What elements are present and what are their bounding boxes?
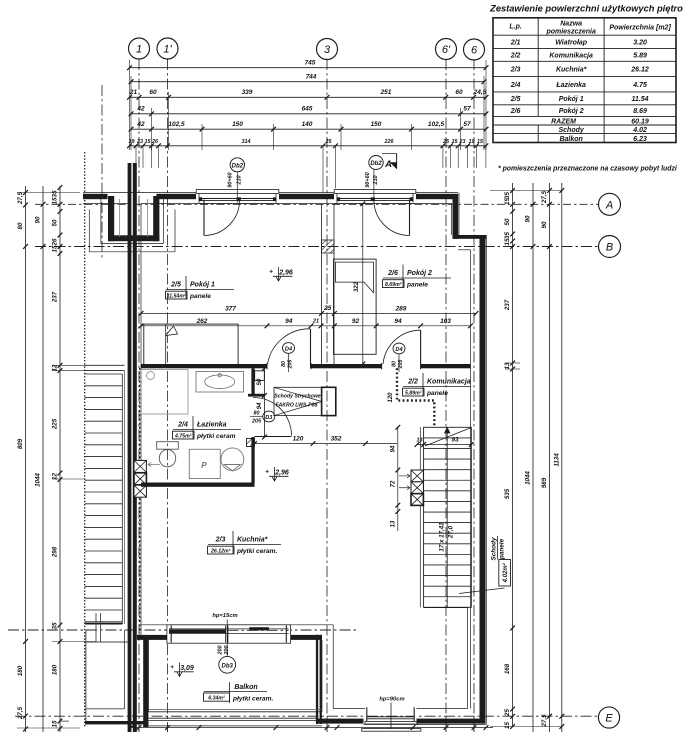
right dim chain total 1134 (553, 183, 564, 732)
svg-text:11.54m²: 11.54m² (167, 293, 186, 299)
svg-text:Łazienka: Łazienka (555, 82, 586, 89)
balcony door window Db3 (167, 624, 292, 644)
neighbour stair treads (85, 371, 125, 624)
label Schody rotated (459, 536, 511, 594)
party wall (128, 163, 137, 732)
svg-text:2/3: 2/3 (510, 67, 521, 74)
svg-text:237: 237 (504, 299, 511, 311)
svg-text:262: 262 (196, 318, 208, 325)
axis bubble 1 (129, 38, 150, 59)
axis bubble 3 (317, 39, 338, 60)
svg-text:A: A (605, 199, 613, 211)
svg-text:6: 6 (471, 44, 478, 56)
corridor wall (141, 363, 471, 380)
axis 6 line (473, 59, 475, 732)
svg-text:2,96: 2,96 (274, 470, 289, 477)
tag Db2 window2 with section A (365, 153, 396, 202)
stair void dotted edge (388, 368, 434, 427)
label Pokoj 1 (166, 276, 235, 300)
svg-text:Kuchnia*: Kuchnia* (556, 67, 587, 74)
divider hatch block (322, 240, 335, 253)
svg-text:2,96: 2,96 (278, 270, 293, 277)
svg-text:60: 60 (149, 89, 157, 96)
bottom window hp90 (362, 703, 421, 732)
right dim chain 27,5/90/989/27,5 (541, 183, 552, 732)
svg-text:panele: panele (406, 282, 428, 289)
dim chain row2 744 (129, 74, 487, 85)
neighbour outer wall dotted (84, 152, 86, 727)
svg-text:93: 93 (451, 437, 459, 444)
svg-text:35: 35 (504, 232, 511, 239)
axis A line (35, 203, 598, 205)
svg-text:102,5: 102,5 (168, 121, 185, 128)
dim chain row3 21/60/339/251/60/24,5 (127, 89, 488, 100)
right dim chain 90/1044 (525, 183, 536, 732)
tag D4 door P2 (392, 343, 405, 372)
svg-text:50: 50 (504, 218, 511, 225)
axis 1 line (138, 59, 140, 732)
svg-text:1044: 1044 (35, 473, 42, 487)
svg-text:90: 90 (525, 215, 532, 222)
washbasin (196, 372, 244, 393)
svg-text:1': 1' (163, 43, 172, 55)
svg-text:205: 205 (288, 360, 294, 370)
svg-text:D4: D4 (285, 346, 293, 352)
svg-text:21: 21 (129, 89, 138, 96)
svg-text:205: 205 (398, 360, 404, 370)
level mark 3.09 balcony (170, 663, 194, 677)
axis bubble 6 (464, 39, 485, 60)
tag Db2 window1 (228, 158, 245, 203)
svg-text:23: 23 (459, 139, 466, 145)
dim bathroom 50/94 (257, 364, 267, 439)
door Db2-1 leaf and arc (204, 200, 240, 236)
svg-text:80: 80 (254, 411, 260, 417)
axis line y=630 (8, 629, 357, 631)
svg-text:809: 809 (17, 438, 24, 449)
svg-text:panele: panele (499, 538, 506, 560)
axis bubble 6' (436, 39, 457, 60)
svg-text:panele: panele (189, 293, 211, 300)
svg-text:210: 210 (373, 176, 379, 186)
svg-text:90: 90 (541, 221, 548, 228)
bathroom right wall (248, 368, 265, 482)
svg-text:Balkon: Balkon (234, 684, 257, 691)
axis 6' line (445, 59, 447, 732)
axis E line (15, 715, 598, 717)
neighbour corridor wall mirrored (84, 365, 124, 370)
svg-text:42: 42 (136, 121, 145, 128)
washing machine (189, 449, 220, 478)
svg-text:15: 15 (504, 198, 511, 205)
toilet (157, 442, 179, 467)
svg-text:Wiatrołap: Wiatrołap (555, 39, 588, 46)
svg-text:377: 377 (225, 305, 236, 312)
boiler (221, 448, 244, 471)
svg-text:11.54: 11.54 (632, 96, 649, 103)
dim extension lines top (130, 60, 487, 192)
svg-text:102,5: 102,5 (428, 121, 445, 128)
svg-text:Pokój 2: Pokój 2 (559, 108, 584, 115)
level mark 2.96 P1 (269, 267, 293, 281)
svg-text:15: 15 (504, 722, 511, 729)
svg-text:4.02: 4.02 (632, 127, 647, 134)
svg-text:26.12m²: 26.12m² (210, 548, 231, 554)
svg-text:27,0: 27,0 (448, 525, 455, 539)
bed P2 (334, 259, 377, 354)
svg-text:Schody: Schody (559, 127, 585, 134)
chimney flues right (399, 470, 423, 505)
svg-text:744: 744 (306, 74, 317, 81)
svg-text:15: 15 (52, 720, 59, 727)
svg-text:94: 94 (285, 318, 293, 325)
svg-text:Schody Strychowe: Schody Strychowe (274, 394, 321, 400)
svg-text:314: 314 (242, 139, 251, 145)
svg-text:5.89m²: 5.89m² (405, 390, 422, 396)
svg-text:60.19: 60.19 (631, 119, 649, 126)
svg-text:Powierzchnia [m2]: Powierzchnia [m2] (609, 25, 671, 32)
svg-text:80: 80 (281, 361, 287, 367)
svg-text:hp=90cm: hp=90cm (379, 697, 404, 703)
svg-text:2/6: 2/6 (387, 270, 398, 277)
bed P1 (144, 324, 238, 365)
svg-text:Db3: Db3 (222, 663, 234, 669)
svg-text:2/4: 2/4 (177, 422, 188, 429)
svg-text:6.23: 6.23 (633, 136, 647, 143)
tag D4 door P1 (281, 343, 294, 372)
neighbour balcony (86, 630, 125, 725)
svg-text:Db2: Db2 (232, 163, 244, 169)
svg-text:26: 26 (52, 238, 59, 246)
right exterior wall (471, 235, 487, 725)
svg-text:94: 94 (390, 445, 396, 452)
svg-text:2/5: 2/5 (170, 282, 181, 289)
dim chain row1 745 (127, 60, 488, 71)
svg-text:2/2: 2/2 (510, 52, 521, 59)
svg-text:P: P (201, 460, 207, 470)
svg-text:27,5: 27,5 (17, 191, 24, 205)
svg-text:D4: D4 (395, 347, 403, 353)
svg-text:Db2: Db2 (370, 161, 382, 167)
svg-text:Zestawienie powierzchni użytko: Zestawienie powierzchni użytkowych piętr… (489, 4, 683, 14)
axis bubble B (599, 236, 621, 258)
svg-text:15: 15 (145, 139, 152, 145)
svg-text:FAKRO LWS-P88: FAKRO LWS-P88 (276, 403, 318, 409)
svg-text:50: 50 (52, 219, 59, 226)
svg-text:180: 180 (52, 664, 59, 675)
left dim chain inner 35/15/50/26/15/237/12/225/298/35/180/15 (52, 185, 63, 732)
svg-text:57: 57 (463, 106, 471, 113)
svg-text:352: 352 (331, 436, 342, 443)
svg-text:płytki ceram.: płytki ceram. (236, 548, 277, 555)
svg-text:+: + (265, 469, 269, 476)
svg-text:27,5: 27,5 (541, 714, 548, 728)
label Balkon (204, 682, 274, 703)
axis bubble E (598, 707, 619, 728)
svg-text:15: 15 (452, 139, 459, 145)
tag D3 door bathroom (250, 411, 275, 425)
svg-text:15: 15 (477, 139, 484, 145)
svg-text:8.69m²: 8.69m² (385, 282, 402, 288)
svg-text:15: 15 (504, 238, 511, 245)
neighbour wall below stairs (86, 613, 128, 642)
svg-text:26.12: 26.12 (630, 67, 649, 74)
balcony slab edge (149, 710, 323, 712)
svg-text:Łazienka: Łazienka (196, 422, 227, 429)
entrance recess walls (89, 196, 175, 252)
svg-text:57: 57 (463, 121, 471, 128)
right exterior wall top (452, 193, 487, 250)
svg-text:42: 42 (136, 106, 145, 113)
left dim extension lines (17, 193, 96, 729)
svg-text:13: 13 (416, 438, 423, 444)
axis 1 mirror line (128, 300, 130, 732)
svg-text:150: 150 (371, 121, 382, 128)
svg-text:80: 80 (392, 361, 398, 367)
dim rooms lower 262/94/21/92/94/103 (139, 318, 473, 328)
party wall finish dotted line (139, 368, 141, 633)
axis line x=102 entrance (101, 85, 103, 258)
svg-text:Schody: Schody (491, 537, 498, 561)
dim stairs horizontal 13/93 (415, 437, 474, 447)
svg-text:3,09: 3,09 (180, 665, 194, 672)
right dim chain inner 35/15/50/35/15/237/13/535/168/15/25 (504, 183, 515, 729)
dim chain row5 42/102,5/150/140/150/102,5/57 (129, 121, 489, 132)
svg-text:Balkon: Balkon (559, 136, 582, 143)
svg-text:745: 745 (305, 60, 316, 67)
top exterior wall (83, 193, 458, 204)
main staircase (420, 427, 471, 607)
label Pokoj 2 (383, 265, 452, 289)
svg-text:hp=15cm: hp=15cm (212, 613, 237, 619)
svg-text:RAZEM: RAZEM (551, 119, 576, 126)
attic ladder Schody Strychowe (274, 387, 336, 415)
svg-text:Pokój 1: Pokój 1 (559, 96, 584, 103)
svg-text:168: 168 (504, 663, 511, 674)
svg-text:298: 298 (52, 546, 59, 558)
door D4-2 P2 (383, 330, 421, 364)
svg-text:8.69: 8.69 (633, 108, 647, 115)
svg-text:205: 205 (251, 419, 262, 425)
svg-text:35: 35 (504, 192, 511, 199)
bottom exterior wall (85, 709, 486, 726)
svg-text:90: 90 (35, 216, 42, 223)
shower (141, 370, 188, 415)
svg-text:4.75: 4.75 (632, 82, 647, 89)
svg-text:200: 200 (224, 646, 230, 656)
svg-text:94: 94 (394, 318, 402, 325)
axis bubble 1' (157, 38, 178, 59)
svg-text:72: 72 (390, 480, 396, 487)
door D4-1 P1 (268, 329, 311, 368)
dim chain row4 42/645/57 (129, 106, 489, 117)
label hp=90cm (379, 697, 404, 703)
svg-text:237: 237 (52, 291, 59, 303)
window W2 Db2 unit (334, 189, 416, 204)
svg-text:Pokój 1: Pokój 1 (190, 282, 215, 289)
right dim extension lines (490, 191, 562, 727)
svg-text:2/4: 2/4 (510, 82, 521, 89)
svg-text:35: 35 (52, 622, 59, 629)
svg-text:1134: 1134 (553, 453, 560, 467)
svg-text:Kuchnia*: Kuchnia* (237, 537, 268, 544)
svg-text:płytki ceram: płytki ceram (196, 433, 236, 440)
svg-text:17 x 17,41: 17 x 17,41 (439, 522, 446, 552)
wall face inner left (140, 204, 142, 635)
bathroom corner hatch (247, 439, 255, 447)
svg-text:Komunikacja: Komunikacja (427, 379, 471, 386)
room divider wall P1/P2 (322, 204, 335, 364)
svg-text:35: 35 (52, 190, 59, 197)
axis B line (35, 246, 598, 248)
svg-text:225: 225 (52, 418, 59, 430)
svg-text:989: 989 (541, 477, 548, 488)
svg-text:289: 289 (395, 305, 407, 312)
svg-text:D3: D3 (265, 415, 273, 421)
svg-text:27,5: 27,5 (17, 706, 24, 720)
svg-text:+: + (170, 664, 174, 671)
dim stairs vertical 94/72/13 (390, 425, 400, 531)
svg-text:24,5: 24,5 (473, 89, 487, 96)
svg-text:200: 200 (218, 646, 224, 656)
tag Db3 balcony door (218, 620, 236, 674)
svg-text:94: 94 (257, 402, 263, 409)
dim rooms upper 377/25/289 (139, 305, 479, 316)
axis 1' line (167, 59, 169, 732)
svg-text:80: 80 (17, 222, 24, 229)
svg-text:210: 210 (236, 176, 242, 186)
svg-text:26: 26 (151, 139, 159, 145)
label Kuchnia (208, 531, 282, 555)
svg-text:23: 23 (136, 139, 143, 145)
svg-text:3: 3 (324, 44, 331, 56)
svg-text:645: 645 (302, 106, 313, 113)
svg-text:60: 60 (455, 89, 463, 96)
svg-text:15: 15 (52, 197, 59, 204)
dim chain row6 19/23/15/26/314/25/226/26/15/23/19/15 (127, 139, 488, 148)
bottom dim line cropped (129, 725, 493, 732)
svg-text:120: 120 (388, 392, 394, 403)
balcony right wall (316, 635, 322, 724)
label hp=15cm (212, 613, 237, 619)
svg-text:2/5: 2/5 (510, 96, 521, 103)
svg-text:4.02m²: 4.02m² (502, 562, 509, 583)
svg-text:535: 535 (504, 488, 511, 499)
chimney flues left (134, 460, 160, 497)
svg-text:103: 103 (440, 318, 451, 325)
kitchen-balcony wall (137, 625, 333, 712)
svg-text:płytki ceram.: płytki ceram. (232, 696, 273, 703)
balcony left wall (143, 635, 148, 727)
label Lazienka (173, 416, 242, 440)
svg-text:Pokój 2: Pokój 2 (407, 270, 432, 277)
left dim chain mid 90/1044 (35, 186, 46, 732)
label Komunikacja (403, 373, 472, 397)
stair enclosure left face (423, 580, 468, 709)
svg-text:27,5: 27,5 (541, 190, 548, 204)
svg-text:5.89: 5.89 (633, 52, 647, 59)
svg-text:25: 25 (323, 305, 332, 312)
axis bubble A (599, 193, 621, 215)
svg-text:90+60: 90+60 (365, 172, 371, 187)
dim corridor 120/352 (252, 436, 397, 446)
svg-text:B: B (606, 241, 613, 253)
area table (489, 4, 683, 144)
svg-text:2/2: 2/2 (407, 379, 418, 386)
svg-text:25: 25 (442, 139, 450, 145)
bathroom bottom wall (141, 483, 255, 487)
svg-text:50: 50 (257, 378, 263, 385)
svg-text:90+60: 90+60 (228, 172, 234, 187)
svg-text:150: 150 (232, 121, 243, 128)
axis 3 line (326, 59, 328, 732)
door D3 bathroom (249, 396, 292, 437)
svg-text:6.34m²: 6.34m² (208, 696, 225, 702)
svg-text:6': 6' (442, 44, 451, 56)
svg-text:92: 92 (352, 318, 360, 325)
svg-text:13: 13 (390, 520, 396, 527)
svg-text:140: 140 (302, 121, 313, 128)
svg-text:L.p.: L.p. (509, 24, 521, 31)
svg-text:19: 19 (469, 139, 475, 145)
level mark 2.96 kitchen (265, 467, 289, 481)
svg-text:15: 15 (52, 245, 59, 252)
svg-text:+: + (269, 269, 273, 276)
svg-text:Nazwa: Nazwa (560, 21, 582, 28)
svg-text:339: 339 (242, 89, 253, 96)
svg-text:A: A (384, 159, 392, 170)
svg-text:3.20: 3.20 (633, 39, 647, 46)
svg-text:4.75m²: 4.75m² (174, 433, 192, 439)
svg-text:21: 21 (312, 319, 319, 325)
svg-text:2/6: 2/6 (510, 108, 521, 115)
svg-text:1044: 1044 (525, 471, 532, 485)
svg-text:322: 322 (353, 281, 360, 292)
svg-text:E: E (605, 712, 613, 724)
window W1 Db2 unit (196, 189, 279, 204)
svg-text:1: 1 (136, 43, 142, 55)
svg-text:226: 226 (384, 139, 395, 145)
left dim chain outer 27,5/80/809/180/27,5 (17, 186, 28, 732)
svg-text:pomieszczenia: pomieszczenia (545, 29, 596, 36)
svg-text:panele: panele (426, 390, 448, 397)
svg-text:180: 180 (17, 665, 24, 676)
svg-text:2/3: 2/3 (215, 537, 226, 544)
door Db2-2 leaf and arc (374, 200, 410, 236)
table footnote (498, 166, 678, 173)
svg-text:25: 25 (504, 709, 511, 717)
svg-text:120: 120 (293, 436, 304, 443)
svg-text:25: 25 (325, 139, 333, 145)
dim 322 vertical P2 (353, 201, 365, 366)
svg-text:2/1: 2/1 (510, 39, 521, 46)
svg-text:251: 251 (380, 89, 392, 96)
svg-text:* pomieszczenia przeznaczone n: * pomieszczenia przeznaczone na czasowy … (498, 166, 678, 173)
svg-text:Komunikacja: Komunikacja (549, 52, 593, 59)
